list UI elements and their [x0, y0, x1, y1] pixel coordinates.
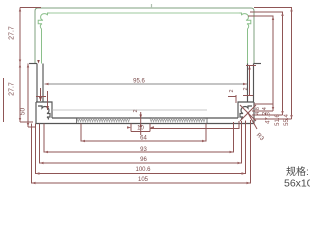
svg-text:105: 105: [138, 177, 149, 183]
svg-text:2: 2: [243, 87, 249, 90]
svg-text:2.4: 2.4: [262, 107, 268, 115]
svg-text:64: 64: [140, 136, 147, 142]
svg-text:50: 50: [20, 108, 27, 116]
svg-text:2: 2: [229, 89, 235, 92]
svg-text:2: 2: [133, 109, 139, 112]
svg-text:4.8: 4.8: [255, 107, 261, 115]
svg-text:93: 93: [140, 147, 147, 153]
svg-text:55.4: 55.4: [284, 114, 290, 126]
svg-text:96: 96: [140, 157, 147, 163]
svg-text:100.6: 100.6: [135, 167, 151, 173]
svg-text:10: 10: [137, 126, 144, 132]
svg-text:56x10: 56x10: [284, 178, 310, 188]
svg-text:51.6: 51.6: [275, 114, 281, 126]
svg-text:规格:: 规格:: [286, 165, 309, 178]
svg-text:R3: R3: [255, 132, 265, 142]
svg-text:27.7: 27.7: [9, 26, 16, 40]
svg-text:27.7: 27.7: [9, 82, 16, 96]
svg-text:95.6: 95.6: [133, 79, 145, 85]
